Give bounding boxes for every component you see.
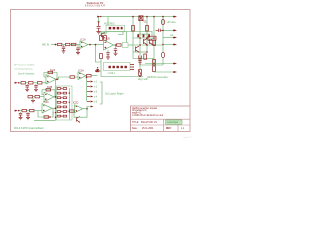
red speck pin num xyxy=(53,114,55,116)
resistor out U3A xyxy=(87,75,92,77)
junction dots top bus xyxy=(132,16,164,18)
label U2A xyxy=(50,69,56,72)
resistor R6 xyxy=(66,43,70,45)
resistor R14 xyxy=(38,82,43,84)
label U2C xyxy=(44,102,50,104)
wire vertical at 108 xyxy=(107,17,109,25)
resistor R8 vertical above B xyxy=(104,32,107,41)
junction out U2A xyxy=(56,78,58,80)
RN1 elements xyxy=(109,27,123,30)
label U2B xyxy=(47,87,53,89)
IC3 box row2 xyxy=(104,63,131,71)
title name xyxy=(141,121,157,124)
pin P3 xyxy=(87,91,98,94)
pin P4 xyxy=(87,96,98,99)
stub third xyxy=(137,34,139,37)
feedback loop U2B xyxy=(42,90,55,97)
capacitor C12 xyxy=(19,112,22,117)
wire out U4 xyxy=(83,107,91,109)
wire xyxy=(27,110,30,112)
op-amp U2B xyxy=(44,92,54,101)
net label MIC xyxy=(42,45,49,47)
op-amp U4 xyxy=(75,105,83,113)
svg-text:ea 1 / 1: ea 1 / 1 xyxy=(184,137,192,139)
note text light 2 xyxy=(14,68,33,71)
title vdiv mid xyxy=(163,119,165,131)
title block outline xyxy=(131,106,191,132)
title vdiv right xyxy=(177,125,179,132)
svg-text:NF Vorverst. mit AGC: NF Vorverst. mit AGC xyxy=(14,64,35,67)
resistor R11 vertical right xyxy=(139,65,142,77)
svg-text:IC2C: IC2C xyxy=(44,102,50,104)
green date box xyxy=(166,120,183,124)
stub components above t-cluster xyxy=(143,34,150,37)
wire chain2 xyxy=(19,82,21,84)
ladder box IC4 xyxy=(57,86,73,120)
capacitor C1 input xyxy=(97,22,101,32)
junction out U2C xyxy=(55,107,57,109)
green label right mid xyxy=(147,76,168,79)
label U1B xyxy=(105,39,111,41)
resistor R9 xyxy=(117,44,122,46)
resistor R3 vertical xyxy=(146,26,149,32)
wire bottom ladder xyxy=(34,119,56,121)
wire xyxy=(33,96,36,98)
capacitor C7 mid xyxy=(106,50,109,57)
pin OUT1 right top xyxy=(173,16,177,18)
ladder row 4 xyxy=(57,101,66,103)
junction out B xyxy=(115,44,117,46)
pin P1 xyxy=(87,81,98,84)
resistor R16 xyxy=(35,96,40,98)
junction out U2B xyxy=(55,96,57,98)
capacitor C13 xyxy=(26,112,29,117)
capacitor C10 xyxy=(26,84,29,89)
ground chain1 b xyxy=(76,52,80,54)
wire right pin3 xyxy=(163,37,174,39)
resistor R12 xyxy=(21,82,26,84)
op-amp U3A xyxy=(78,72,86,80)
ladder row 1 xyxy=(57,88,66,90)
svg-text:25.11.2004: 25.11.2004 xyxy=(142,128,154,130)
bus pins vertical xyxy=(86,78,88,102)
junction out A xyxy=(89,44,91,46)
ladder row 6 xyxy=(57,111,66,113)
title text l1 xyxy=(132,107,158,110)
frame border xyxy=(11,10,191,132)
resistor R7 vertical above B xyxy=(100,32,103,41)
resistor B3 vertical xyxy=(153,60,156,66)
net label small top xyxy=(104,23,115,26)
svg-text:12/07/2004: 12/07/2004 xyxy=(167,122,179,124)
wire y31 long xyxy=(101,32,152,37)
svg-text:C 2004-05 ein Entwurf rev anp: C 2004-05 ein Entwurf rev anp xyxy=(132,114,164,117)
pin IN3 left xyxy=(15,110,20,112)
label U4 pin xyxy=(73,103,79,105)
feedback resistor U2C xyxy=(44,116,49,118)
resistor R20 xyxy=(67,110,74,112)
bottom note green xyxy=(14,127,44,130)
ground c13 xyxy=(26,117,30,119)
svg-text:Line In Vorverst.: Line In Vorverst. xyxy=(18,73,35,76)
ladder row 7 xyxy=(57,115,66,117)
junction t dots xyxy=(139,37,155,59)
crystal Q4 xyxy=(139,56,142,60)
ground chain1 a xyxy=(62,51,66,53)
note text light 3 xyxy=(18,73,35,76)
op-amp U1A xyxy=(80,41,88,49)
junction fb U2C xyxy=(49,116,51,118)
op-amp U2A xyxy=(46,75,56,84)
wire opamp A out xyxy=(88,44,104,46)
junction chain1 xyxy=(55,44,57,46)
wire to opamp D xyxy=(40,96,45,98)
wire out U2C xyxy=(52,107,56,109)
wire to opamp C xyxy=(42,82,46,83)
capacitor C6 to ground xyxy=(76,45,79,53)
ground C14 xyxy=(114,53,118,55)
pin X1 audio in top xyxy=(97,16,101,18)
resistor R17 xyxy=(22,109,27,111)
wire RN1 down xyxy=(118,32,123,35)
hwire t5 xyxy=(140,64,163,66)
op-amp U2C xyxy=(42,104,52,113)
junction node input cap xyxy=(98,18,100,23)
wire into U3 xyxy=(59,77,71,79)
footer faint xyxy=(184,137,192,139)
net label +9V xyxy=(167,22,177,24)
ground under R16 xyxy=(31,98,35,103)
label U1A xyxy=(81,38,87,41)
diode bus top xyxy=(96,67,99,72)
junction wire under IC3 xyxy=(139,76,141,78)
header text line 1 xyxy=(87,2,104,5)
transistor Q1 xyxy=(144,39,148,45)
svg-text:IC3A: IC3A xyxy=(79,69,85,72)
wire out U2B xyxy=(54,96,57,98)
label right of IC3 xyxy=(138,79,149,81)
feedback wire B xyxy=(96,45,102,62)
IC box small mid xyxy=(148,36,156,40)
transistor Q2b xyxy=(149,39,153,45)
ladder right bus xyxy=(69,88,70,120)
wire out U3A to bus xyxy=(91,75,97,77)
pin OUT6 xyxy=(173,71,177,73)
resistor network RN1 box xyxy=(106,25,125,32)
capacitor C14 out B xyxy=(114,45,117,53)
svg-text:8 8 8 2U / 8 B K R: 8 8 8 2U / 8 B K R xyxy=(85,5,105,8)
resistor mid vertical x101 xyxy=(100,54,103,59)
ground c12 xyxy=(19,117,23,119)
wire chain1 xyxy=(51,44,57,46)
pin OUT2 xyxy=(173,29,177,31)
IC3 pins right xyxy=(130,64,134,70)
svg-text:IC2B: IC2B xyxy=(47,87,53,89)
capacitor CPOL C2 xyxy=(161,19,164,24)
hwire t1 xyxy=(133,37,156,39)
title text l2 xyxy=(132,109,147,112)
svg-text:out: out xyxy=(170,34,174,37)
wire xyxy=(33,82,38,84)
title Date xyxy=(132,127,138,130)
note text light 1 xyxy=(14,64,35,67)
title rev value xyxy=(181,128,185,130)
svg-text:x 100 n: x 100 n xyxy=(108,73,116,75)
wire to right pin top xyxy=(163,16,174,18)
wire top input xyxy=(101,16,108,18)
resistor R15 xyxy=(28,96,33,98)
wire xyxy=(62,44,66,46)
capacitor C3 series xyxy=(156,29,164,32)
wire xyxy=(70,44,80,46)
resistor B1 vertical xyxy=(153,40,156,45)
junction extra dots cluster xyxy=(146,44,164,46)
ground c11 xyxy=(34,89,38,91)
title TITLE cell xyxy=(132,122,139,124)
wire chain3 to opamp E3 xyxy=(34,110,42,112)
pin IN2 left xyxy=(15,82,20,84)
net label out2 xyxy=(170,34,174,37)
feedback resistor U2A xyxy=(48,71,53,73)
wire r19 to U3 xyxy=(75,76,78,78)
title text l4 xyxy=(132,114,164,117)
wire under IC3 xyxy=(101,59,143,77)
svg-text:MCLK 8 MHz Quarzoszillator: MCLK 8 MHz Quarzoszillator xyxy=(14,127,44,130)
vertical wire x163 top xyxy=(162,17,164,52)
vertical wire x140 top xyxy=(139,17,141,65)
bus left vertical xyxy=(55,79,57,120)
label under IC3 xyxy=(108,73,116,75)
ground mid xyxy=(106,57,110,59)
feedback loop U2C below xyxy=(38,108,53,117)
svg-text:REV:: REV: xyxy=(166,128,172,130)
feedback resistor U2B xyxy=(46,89,51,91)
svg-text:IC2D: IC2D xyxy=(73,103,79,105)
pin P6 xyxy=(91,106,94,108)
label under RN1 xyxy=(102,33,108,35)
bus dots lower xyxy=(55,112,57,118)
junction out U4 xyxy=(86,108,88,110)
wire box drop xyxy=(126,32,128,43)
header text line 2 xyxy=(85,5,105,8)
capacitor CPOL right xyxy=(161,52,164,65)
svg-text:IC1A: IC1A xyxy=(81,38,87,41)
pin P2 xyxy=(87,86,98,89)
wire right pin4 xyxy=(163,44,174,46)
ladder row 2 xyxy=(57,92,66,94)
wire top bus xyxy=(108,16,163,18)
svg-text:IC1B: IC1B xyxy=(105,39,111,41)
capacitor C11 xyxy=(34,84,37,89)
feedback loop U2A xyxy=(44,73,57,80)
wire chain3 xyxy=(19,110,22,112)
resistor R18 xyxy=(30,109,35,111)
pin OUT5 xyxy=(173,63,177,65)
resistor R6b xyxy=(72,43,76,45)
title divider row3 xyxy=(131,124,191,126)
junction row63 xyxy=(153,63,155,65)
op-amp U1B xyxy=(104,40,114,50)
title divider row2 xyxy=(131,118,191,120)
svg-text:abgl. wdh: abgl. wdh xyxy=(138,79,149,81)
ground input xyxy=(96,32,100,34)
wire to transistor cluster xyxy=(128,44,133,46)
bracket label xyxy=(105,93,124,96)
ladder row 3 xyxy=(57,97,66,99)
vertical wire x154 top xyxy=(153,17,155,64)
capacitor C5 to ground xyxy=(62,45,65,51)
IC3 red row xyxy=(109,66,127,68)
bracket out xyxy=(100,82,102,104)
svg-text:+9V elko: +9V elko xyxy=(167,22,177,24)
pin left mid xyxy=(95,70,101,72)
wire to right pin 2 xyxy=(162,30,173,32)
svg-text:TITLE:: TITLE: xyxy=(132,122,139,124)
transistor Q6 xyxy=(77,117,81,123)
capacitor C8 xyxy=(138,59,141,66)
resistor R10 vertical xyxy=(153,64,156,72)
resistor R2 vertical xyxy=(132,26,135,32)
vertical wire x147 top xyxy=(146,17,148,52)
feedback wire U4 xyxy=(74,109,87,118)
title date value xyxy=(142,128,154,130)
resistor R5 xyxy=(58,43,62,45)
transistor Q2 xyxy=(136,46,140,52)
diode D1 xyxy=(139,16,147,24)
svg-text:Date:: Date: xyxy=(132,127,138,130)
pin OUT3 xyxy=(173,37,177,39)
ladder row 5 xyxy=(57,106,66,108)
wire out U2A xyxy=(56,78,59,80)
label U3A xyxy=(79,69,85,72)
wire row72 xyxy=(154,71,174,74)
block small green xyxy=(123,43,129,48)
hwire t2 xyxy=(133,44,163,46)
wire row63 xyxy=(145,63,174,65)
resistor R19 xyxy=(70,76,75,78)
wire xyxy=(26,82,29,84)
transistor Q7 under C1 xyxy=(102,33,105,38)
resistor B2 vertical xyxy=(144,54,147,59)
hwire t4 xyxy=(133,58,154,60)
ground c10 xyxy=(25,89,29,91)
hwire t3 xyxy=(133,51,147,53)
title REV xyxy=(166,128,172,130)
svg-text:8SmpTrx8C CV: 8SmpTrx8C CV xyxy=(141,121,157,124)
junction bus xyxy=(86,77,88,79)
title text l3 xyxy=(132,112,142,114)
pin OUT4 xyxy=(173,44,177,46)
vertical wire x133 top xyxy=(132,17,134,59)
wire out B xyxy=(114,44,117,46)
svg-text:und Klangregelung: und Klangregelung xyxy=(14,68,33,71)
resistor R13 xyxy=(29,82,34,84)
svg-text:MIC IN: MIC IN xyxy=(42,45,49,47)
svg-text:IC2 P: IC2 P xyxy=(102,33,108,35)
svg-text:LM35 DC Generator: LM35 DC Generator xyxy=(147,76,168,79)
wire stub tops xyxy=(138,33,150,35)
svg-text:IC2A: IC2A xyxy=(50,69,56,72)
pin P5 xyxy=(87,101,98,104)
junction fb B xyxy=(95,44,97,46)
svg-text:Out Lautst. Regler: Out Lautst. Regler xyxy=(105,93,124,96)
